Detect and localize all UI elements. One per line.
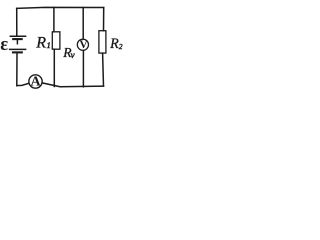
wire left edge lower [16, 54, 18, 86]
battery cell 2 long plate [10, 48, 26, 50]
battery cell 1 short plate [13, 38, 22, 40]
battery cell 2 short plate [13, 51, 22, 53]
ammeter A circle [29, 75, 42, 88]
wire right edge upper [103, 8, 105, 31]
wire R1 branch upper [53, 8, 55, 32]
wire voltmeter branch lower [82, 50, 84, 87]
wire left edge upper [16, 8, 18, 36]
voltmeter V circle [77, 39, 88, 50]
wire voltmeter branch upper [82, 8, 84, 40]
wire R1 branch lower [53, 49, 55, 86]
svg-text:ε: ε [0, 35, 8, 55]
svg-text:A: A [30, 75, 41, 90]
battery inter-cell stub [16, 40, 18, 44]
battery cell 1 long plate [10, 35, 25, 37]
wire right edge lower [102, 53, 105, 86]
wire bottom left to ammeter [17, 83, 29, 85]
wire bottom ammeter to right corner [42, 83, 103, 87]
resistor R1 body [52, 32, 60, 49]
svg-text:V: V [79, 39, 88, 51]
resistor R2 body [99, 31, 106, 53]
wire top bus [17, 6, 104, 9]
